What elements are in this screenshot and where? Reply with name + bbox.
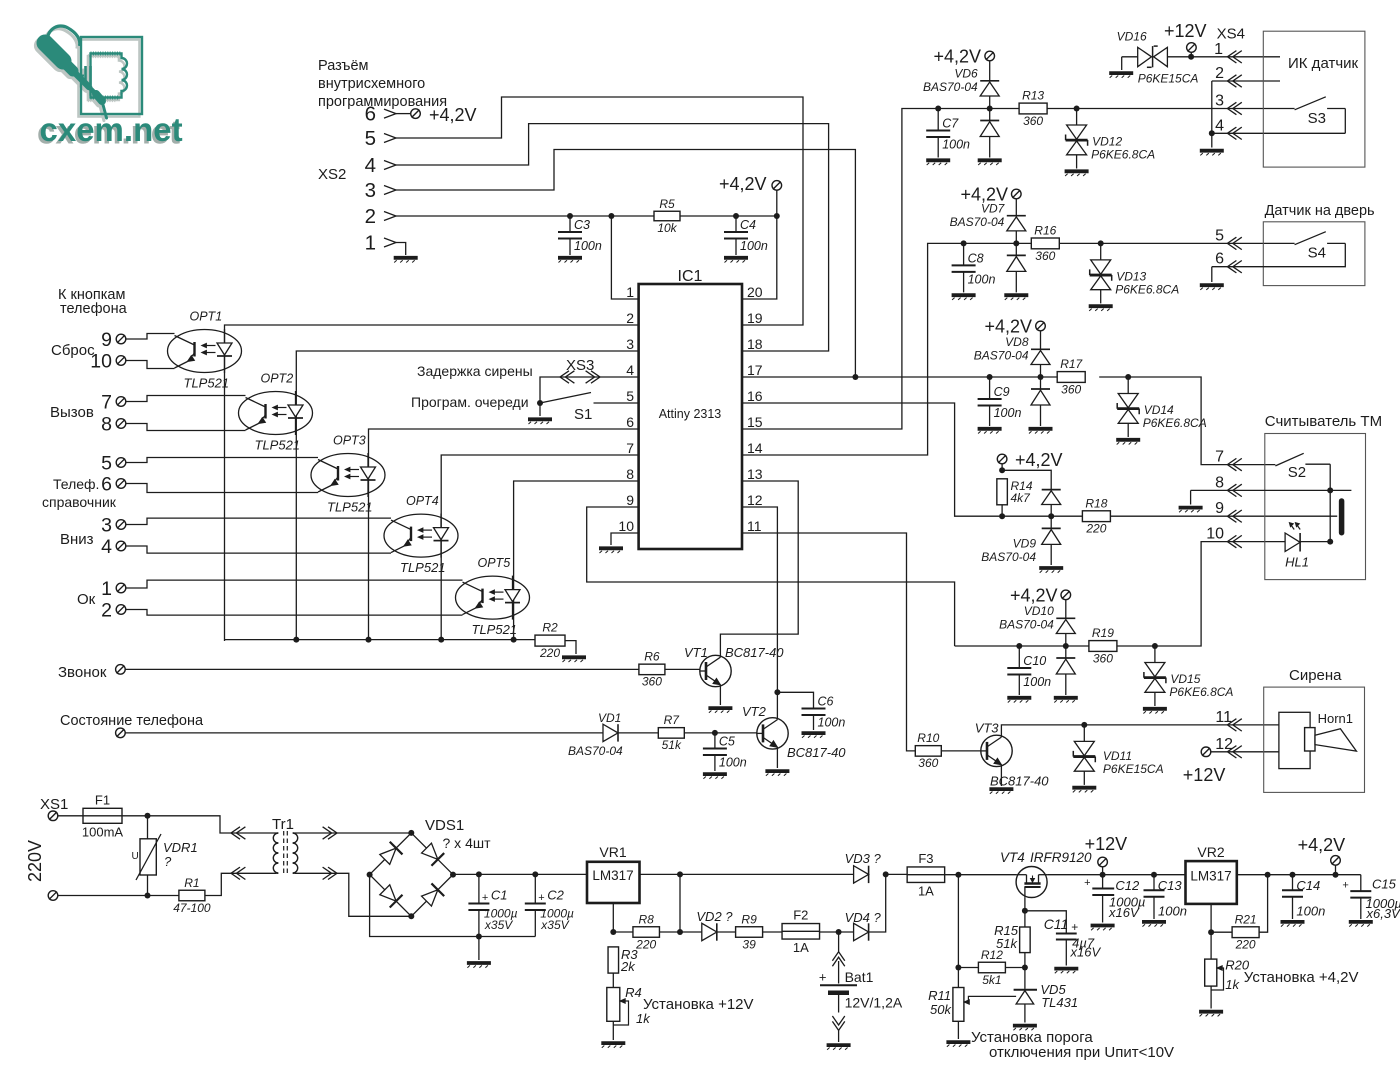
battery Bat1 bbox=[819, 932, 903, 1042]
ground at C5 bbox=[703, 774, 727, 779]
wire C5 top bbox=[714, 733, 716, 749]
wire OPT5 LED to IC1 pin8 bbox=[514, 481, 639, 641]
wire to C13 bbox=[1103, 874, 1154, 876]
svg-text:R10: R10 bbox=[917, 731, 939, 745]
wire adj row bbox=[613, 931, 633, 933]
ground at VT2 bbox=[765, 771, 789, 776]
terminal +4,2V rail bbox=[1331, 856, 1341, 866]
resistor R5 bbox=[654, 197, 680, 235]
wire +4,2V to VD9 top bbox=[1002, 470, 1051, 488]
wire Tr1 secondary top bbox=[295, 832, 412, 834]
connector pin 9 bbox=[1215, 500, 1242, 522]
svg-text:4: 4 bbox=[365, 154, 376, 177]
fuse F2 bbox=[782, 908, 820, 956]
wire pin6 to ground bbox=[1211, 267, 1213, 282]
transistor VT3 BC817-40 bbox=[981, 735, 1012, 766]
wire gate to R15 bbox=[1024, 911, 1026, 927]
wire XS4 pin2 gnd vertical bbox=[1211, 81, 1213, 148]
svg-text:Вниз: Вниз bbox=[60, 531, 94, 548]
wire C5 bottom bbox=[714, 755, 716, 771]
resistor R1 bbox=[173, 876, 211, 915]
svg-text:телефона: телефона bbox=[60, 301, 128, 317]
svg-text:15: 15 bbox=[747, 414, 763, 430]
svg-text:20: 20 bbox=[747, 284, 763, 300]
terminal Звонок bbox=[116, 665, 126, 675]
svg-text:F1: F1 bbox=[95, 792, 110, 807]
wire C3 to ground bbox=[569, 216, 571, 232]
optocoupler OPT5 bbox=[456, 556, 530, 637]
svg-text:C12: C12 bbox=[1115, 878, 1140, 893]
svg-text:6: 6 bbox=[626, 414, 634, 430]
diode bridge VDS1 bbox=[370, 817, 491, 916]
terminal 7 number bbox=[101, 392, 112, 414]
svg-text:C4: C4 bbox=[740, 218, 756, 232]
svg-text:10k: 10k bbox=[657, 221, 677, 235]
ground at Bat1 bbox=[827, 1045, 851, 1050]
svg-text:50k: 50k bbox=[930, 1002, 952, 1017]
node VDR1 top bbox=[145, 813, 151, 819]
wire OPT1 LED to IC1 pin2 bbox=[225, 325, 639, 641]
svg-text:Установка +4,2V: Установка +4,2V bbox=[1244, 969, 1359, 986]
svg-text:x16V: x16V bbox=[1108, 905, 1140, 920]
ground at C15 bbox=[1349, 922, 1373, 927]
wire Звонок to R6 bbox=[125, 668, 638, 670]
node +4,2V rail bbox=[1333, 872, 1339, 878]
optocoupler OPT1 bbox=[168, 310, 242, 391]
potentiometer R4 bbox=[607, 985, 651, 1026]
svg-text:C14: C14 bbox=[1296, 878, 1320, 893]
ground at VD6 bbox=[978, 160, 1002, 165]
label 220V bbox=[25, 840, 45, 882]
label VD12 bbox=[1091, 135, 1155, 162]
regulator VR2 LM317 bbox=[1186, 844, 1237, 904]
resistor R21 bbox=[1232, 912, 1259, 951]
switch S4 bbox=[1295, 232, 1346, 262]
node VD10 bbox=[1063, 643, 1069, 649]
connector XS2 pin 6 bbox=[365, 103, 396, 126]
cxem.net logo bbox=[37, 26, 183, 150]
svg-text:VD10: VD10 bbox=[1024, 604, 1054, 618]
node F3 out bbox=[955, 872, 961, 878]
node VD7 bbox=[1013, 240, 1019, 246]
wire to Tr1 primary top bbox=[148, 816, 277, 833]
svg-text:R16: R16 bbox=[1034, 224, 1056, 238]
node bus x513 bbox=[511, 637, 517, 643]
shunt regulator VD5 TL431 bbox=[1014, 968, 1078, 1023]
wire bridge plus to VR1 bbox=[453, 873, 587, 875]
svg-text:220: 220 bbox=[1085, 522, 1106, 536]
wire VR1 adj bbox=[612, 903, 614, 932]
node S1 pivot bbox=[537, 400, 543, 406]
wire R8 up bbox=[679, 874, 681, 932]
fuse F1 bbox=[82, 792, 124, 839]
svg-text:+: + bbox=[819, 970, 827, 985]
svg-text:VD16: VD16 bbox=[1117, 29, 1147, 43]
net label +4,2V net E bbox=[1010, 585, 1058, 605]
node bridge right bbox=[450, 872, 456, 878]
svg-text:220: 220 bbox=[635, 937, 656, 951]
label VT1 bbox=[684, 645, 784, 660]
svg-text:+4,2V: +4,2V bbox=[933, 47, 981, 67]
transistor VT2 BC817-40 bbox=[757, 718, 788, 749]
wire VT4 gate down bbox=[1024, 897, 1026, 911]
svg-text:BAS70-04: BAS70-04 bbox=[981, 550, 1036, 564]
svg-text:Звонок: Звонок bbox=[58, 664, 107, 681]
svg-text:Horn1: Horn1 bbox=[1318, 711, 1353, 726]
wire VT2 collector to IC1 pin12 bbox=[742, 507, 777, 720]
svg-text:10: 10 bbox=[90, 351, 112, 373]
terminal +4,2V net D bbox=[997, 454, 1007, 464]
svg-text:VDR1: VDR1 bbox=[163, 840, 198, 855]
svg-text:Сброс: Сброс bbox=[51, 342, 95, 359]
node C12 bbox=[1100, 872, 1106, 878]
node XS4 pin4 gnd bbox=[1209, 130, 1215, 136]
svg-text:VD9: VD9 bbox=[1013, 537, 1037, 551]
wire OPT4 LED to IC1 pin7 bbox=[441, 455, 638, 641]
svg-text:программирования: программирования bbox=[318, 94, 447, 110]
wire R4 to ground bbox=[612, 1021, 614, 1040]
wire adj to R21 bbox=[1211, 931, 1232, 933]
wire S4 to pin6 bbox=[1212, 243, 1346, 266]
svg-text:Разъём: Разъём bbox=[318, 58, 369, 74]
wire VD16 to ground bbox=[1121, 57, 1123, 70]
node VR1 out R8 bbox=[677, 871, 683, 877]
svg-text:VD12: VD12 bbox=[1092, 135, 1122, 149]
ground at C8 bbox=[952, 295, 976, 300]
svg-text:360: 360 bbox=[1093, 651, 1113, 665]
diode VD6 BAS70-04 bbox=[980, 62, 999, 158]
svg-text:VD15: VD15 bbox=[1170, 672, 1200, 686]
ground at TM pin8 bbox=[1179, 508, 1203, 513]
wire pin8 to ground bbox=[1190, 490, 1192, 504]
svg-text:VT2: VT2 bbox=[742, 704, 767, 719]
terminal +4,2V net E bbox=[1061, 590, 1071, 600]
svg-text:VT4: VT4 bbox=[1000, 850, 1025, 865]
svg-text:C8: C8 bbox=[968, 251, 984, 265]
svg-text:R2: R2 bbox=[542, 621, 558, 635]
svg-text:2: 2 bbox=[101, 600, 112, 622]
label VD8 bbox=[974, 335, 1029, 363]
svg-text:R8: R8 bbox=[639, 912, 655, 926]
switch S2 bbox=[1275, 453, 1330, 481]
svg-text:+4,2V: +4,2V bbox=[1298, 835, 1346, 855]
wire terminal 4 to OPT4 emitter bbox=[126, 546, 391, 553]
ground at C7 bbox=[926, 160, 950, 165]
node +4,2V rail top bbox=[774, 213, 780, 219]
svg-text:7: 7 bbox=[626, 440, 634, 456]
label Установка порога bbox=[971, 1029, 1093, 1046]
svg-text:IRFR9120: IRFR9120 bbox=[1030, 850, 1092, 865]
svg-text:VD14: VD14 bbox=[1144, 403, 1174, 417]
label Задержка сирены bbox=[417, 363, 533, 379]
wire IC1 pin15 to net A bbox=[742, 109, 938, 430]
wire R12 to R15 node bbox=[1005, 967, 1025, 969]
svg-text:R5: R5 bbox=[659, 197, 675, 211]
svg-text:HL1: HL1 bbox=[1285, 554, 1309, 569]
resistor R3 bbox=[608, 947, 619, 973]
arrows primary bottom bbox=[231, 867, 245, 879]
diode VD3 bbox=[845, 851, 882, 883]
svg-text:+: + bbox=[1071, 920, 1078, 934]
svg-text:+: + bbox=[482, 892, 488, 904]
node C7 bbox=[935, 106, 941, 112]
svg-text:C7: C7 bbox=[942, 117, 959, 131]
resistor R16 bbox=[1031, 224, 1059, 263]
svg-text:OPT1: OPT1 bbox=[190, 310, 223, 324]
wire IC1 pin10 to ground bbox=[611, 533, 639, 545]
svg-text:10: 10 bbox=[618, 518, 634, 534]
terminal 6 number bbox=[101, 474, 112, 496]
svg-text:R18: R18 bbox=[1085, 496, 1107, 510]
terminal 8 bbox=[116, 419, 126, 429]
wire net D row right bbox=[1110, 515, 1337, 517]
capacitor C4 bbox=[724, 218, 768, 253]
node after R13 bbox=[1074, 106, 1080, 112]
fuse F3 bbox=[907, 851, 945, 899]
net label +12V top bbox=[1164, 21, 1207, 41]
svg-text:1: 1 bbox=[626, 284, 634, 300]
svg-text:R19: R19 bbox=[1092, 626, 1114, 640]
wire C7 top bbox=[937, 109, 939, 131]
wire R21 up bbox=[1259, 875, 1268, 933]
node R12 left bbox=[955, 965, 961, 971]
TVS diode VD15 P6KE6.8CA bbox=[1144, 646, 1166, 706]
svg-text:TLP521: TLP521 bbox=[184, 376, 230, 391]
svg-text:13: 13 bbox=[747, 466, 763, 482]
wire net E row bbox=[955, 645, 1089, 647]
connector XS4 pin 1 bbox=[1214, 41, 1242, 63]
wire R3 to R4 bbox=[612, 973, 614, 987]
label VD15 bbox=[1169, 672, 1233, 699]
svg-text:VD2 ?: VD2 ? bbox=[696, 909, 733, 924]
node after R16 bbox=[1098, 240, 1104, 246]
capacitor C14 bbox=[1282, 875, 1325, 919]
terminal 5 number bbox=[101, 453, 112, 475]
ground at XS4 pin6 bbox=[1200, 285, 1224, 290]
svg-text:Attiny 2313: Attiny 2313 bbox=[659, 407, 722, 421]
svg-text:9: 9 bbox=[101, 329, 112, 351]
node Bat1 bbox=[836, 929, 842, 935]
ground at R11 bbox=[946, 1042, 970, 1047]
svg-text:IC1: IC1 bbox=[678, 268, 703, 285]
svg-text:TLP521: TLP521 bbox=[472, 622, 518, 637]
svg-text:C5: C5 bbox=[719, 735, 735, 749]
ground at C13 bbox=[1142, 922, 1166, 927]
svg-text:1: 1 bbox=[1214, 41, 1223, 58]
ground at XS4 bbox=[1200, 151, 1224, 156]
node C8 bbox=[961, 240, 967, 246]
svg-text:S2: S2 bbox=[1288, 464, 1306, 481]
svg-text:+4,2V: +4,2V bbox=[719, 174, 767, 194]
capacitor C15 bbox=[1342, 875, 1400, 921]
node R20 top bbox=[1208, 929, 1214, 935]
wire net C row right bbox=[1099, 377, 1275, 465]
svg-text:LM317: LM317 bbox=[592, 868, 633, 883]
wire +12V stub rail bbox=[1102, 867, 1104, 875]
svg-text:LM317: LM317 bbox=[1190, 869, 1231, 884]
wire terminal 9 to OPT1 collector bbox=[126, 334, 175, 340]
svg-text:100n: 100n bbox=[1023, 675, 1051, 689]
svg-text:VR2: VR2 bbox=[1197, 844, 1224, 860]
terminal 2 number bbox=[101, 600, 112, 622]
node VD3 cathode bbox=[883, 871, 889, 877]
label Установка +4,2V bbox=[1244, 969, 1359, 986]
optocoupler OPT3 bbox=[311, 434, 385, 515]
node TM pin8 bbox=[1327, 487, 1333, 493]
svg-text:справочник: справочник bbox=[42, 494, 117, 510]
resistor R2 bbox=[535, 621, 565, 661]
wire Tr1 secondary bottom bbox=[295, 873, 412, 916]
connector XS4 pin 2 bbox=[1215, 65, 1242, 87]
label VD11 bbox=[1103, 749, 1164, 776]
svg-text:C13: C13 bbox=[1158, 878, 1183, 893]
wire net B row bbox=[964, 242, 1032, 244]
svg-text:VD1: VD1 bbox=[598, 711, 621, 725]
terminal 9 number bbox=[101, 329, 112, 351]
svg-text:P6KE6.8CA: P6KE6.8CA bbox=[1091, 148, 1155, 162]
terminal +4,2V net B bbox=[1012, 189, 1022, 199]
node R14 top bbox=[999, 467, 1005, 473]
svg-text:P6KE6.8CA: P6KE6.8CA bbox=[1169, 685, 1233, 699]
terminal 2 bbox=[116, 605, 126, 615]
node R8 right bbox=[677, 929, 683, 935]
resistor R15 bbox=[1020, 927, 1031, 953]
wire VD2 to R9 bbox=[717, 931, 736, 933]
connector XS4 pin 5 bbox=[1215, 227, 1242, 249]
wire VD16 to +12V bbox=[1167, 56, 1191, 58]
node C13 bbox=[1151, 872, 1157, 878]
svg-text:100n: 100n bbox=[740, 239, 768, 253]
node VD9 bbox=[1048, 513, 1054, 519]
svg-text:? x 4шт: ? x 4шт bbox=[443, 835, 492, 851]
wire R9 to F2 bbox=[763, 931, 783, 933]
varistor VDR1 bbox=[132, 816, 198, 896]
label К кнопкам телефона bbox=[58, 287, 128, 317]
svg-text:P6KE15CA: P6KE15CA bbox=[1103, 762, 1164, 776]
wire net D row bbox=[999, 515, 1082, 517]
ground at VD7 bbox=[1004, 295, 1028, 300]
node C10 bbox=[1016, 643, 1022, 649]
diode VD7 BAS70-04 bbox=[1007, 196, 1026, 292]
svg-text:360: 360 bbox=[642, 675, 662, 689]
wire F2 to Bat1 node bbox=[820, 931, 854, 933]
terminal 3 bbox=[116, 520, 126, 530]
ground at C10 bbox=[1007, 698, 1031, 703]
svg-text:TLP521: TLP521 bbox=[327, 500, 373, 515]
svg-text:19: 19 bbox=[747, 310, 763, 326]
MOSFET VT4 IRFR9120 bbox=[1000, 850, 1092, 898]
terminal 5 bbox=[116, 458, 126, 468]
svg-text:P6KE6.8CA: P6KE6.8CA bbox=[1143, 416, 1207, 430]
svg-text:R4: R4 bbox=[625, 985, 642, 1000]
svg-text:220: 220 bbox=[1235, 938, 1256, 952]
svg-text:S3: S3 bbox=[1308, 110, 1326, 127]
svg-text:1: 1 bbox=[365, 232, 376, 255]
node pin17 staircase bbox=[852, 374, 858, 380]
wire XS2 pin3 to IC1 pin17 node bbox=[396, 150, 855, 378]
svg-text:100n: 100n bbox=[968, 272, 996, 286]
label R3 bbox=[620, 947, 638, 974]
wire S2 right vertical bbox=[1329, 464, 1331, 541]
svg-text:C6: C6 bbox=[818, 695, 834, 709]
wire C7 bottom bbox=[937, 137, 939, 158]
svg-text:Tr1: Tr1 bbox=[272, 816, 294, 833]
svg-text:R9: R9 bbox=[741, 912, 757, 926]
svg-text:TLP521: TLP521 bbox=[400, 560, 446, 575]
svg-text:VD3 ?: VD3 ? bbox=[845, 851, 882, 866]
svg-text:6: 6 bbox=[365, 103, 376, 126]
svg-text:+: + bbox=[1342, 880, 1348, 892]
svg-text:12V/1,2A: 12V/1,2A bbox=[845, 995, 903, 1011]
box Сирена bbox=[1264, 667, 1365, 792]
connector XS4 pin 3 bbox=[1215, 93, 1242, 115]
terminal 8 number bbox=[101, 414, 112, 436]
ground at R2 bbox=[562, 657, 586, 662]
capacitor C12 bbox=[1084, 875, 1145, 923]
wire R14 bottom bbox=[1001, 505, 1003, 516]
svg-text:BAS70-04: BAS70-04 bbox=[950, 215, 1005, 229]
node R21 out bbox=[1265, 872, 1271, 878]
svg-text:8: 8 bbox=[1215, 474, 1224, 491]
svg-text:7: 7 bbox=[101, 392, 112, 414]
node bridge top bbox=[408, 830, 414, 836]
svg-text:100n: 100n bbox=[1296, 904, 1325, 919]
capacitor C9 bbox=[978, 385, 1022, 420]
svg-text:S4: S4 bbox=[1308, 244, 1326, 261]
wire R1 to Tr1 primary bottom bbox=[205, 873, 276, 895]
svg-text:R21: R21 bbox=[1235, 912, 1257, 926]
svg-text:100n: 100n bbox=[574, 239, 602, 253]
svg-text:P6KE15CA: P6KE15CA bbox=[1138, 72, 1199, 86]
svg-text:C10: C10 bbox=[1023, 654, 1046, 668]
svg-text:5: 5 bbox=[365, 127, 376, 150]
ground at VD5 bbox=[1013, 1026, 1037, 1031]
resistor R6 bbox=[639, 650, 665, 689]
wire IC1 pin14 to net B bbox=[742, 243, 964, 455]
capacitor C2 bbox=[525, 874, 574, 936]
svg-text:3: 3 bbox=[101, 515, 112, 537]
box Считыватель ТМ bbox=[1265, 413, 1382, 580]
label XS2 header bbox=[318, 58, 447, 110]
wire XS2 pin4 to IC1 pin18 bbox=[396, 124, 829, 351]
svg-text:VD8: VD8 bbox=[1005, 335, 1029, 349]
wire +12V stub bbox=[1190, 52, 1192, 57]
svg-text:8: 8 bbox=[626, 466, 634, 482]
resistor R7 bbox=[658, 713, 684, 752]
label Вызов bbox=[50, 404, 94, 421]
node C1 bottom bbox=[476, 934, 482, 940]
arrows primary top bbox=[231, 827, 245, 839]
wire pin8 stub right bbox=[1330, 489, 1351, 491]
svg-text:S1: S1 bbox=[574, 406, 592, 423]
resistor R18 bbox=[1082, 496, 1110, 535]
node C9 bbox=[987, 374, 993, 380]
net label +4,2V above IC1 bbox=[719, 174, 767, 194]
wire IC1 pin4 to XS3 bbox=[540, 377, 639, 403]
wire OPT3 LED to IC1 pin6 bbox=[369, 429, 639, 641]
wire XS4 pin1 bbox=[1191, 56, 1280, 58]
switch S1 bbox=[540, 393, 639, 424]
label отключения bbox=[989, 1044, 1174, 1061]
svg-text:OPT2: OPT2 bbox=[261, 372, 294, 386]
net label +4,2V at XS2 bbox=[429, 105, 477, 125]
wire OPT2 LED to IC1 pin3 bbox=[296, 351, 638, 641]
svg-text:Состояние телефона: Состояние телефона bbox=[60, 713, 204, 729]
wire bridge minus rail bbox=[370, 875, 536, 937]
svg-text:1A: 1A bbox=[793, 940, 809, 955]
svg-text:360: 360 bbox=[918, 756, 938, 770]
svg-text:14: 14 bbox=[747, 440, 763, 456]
